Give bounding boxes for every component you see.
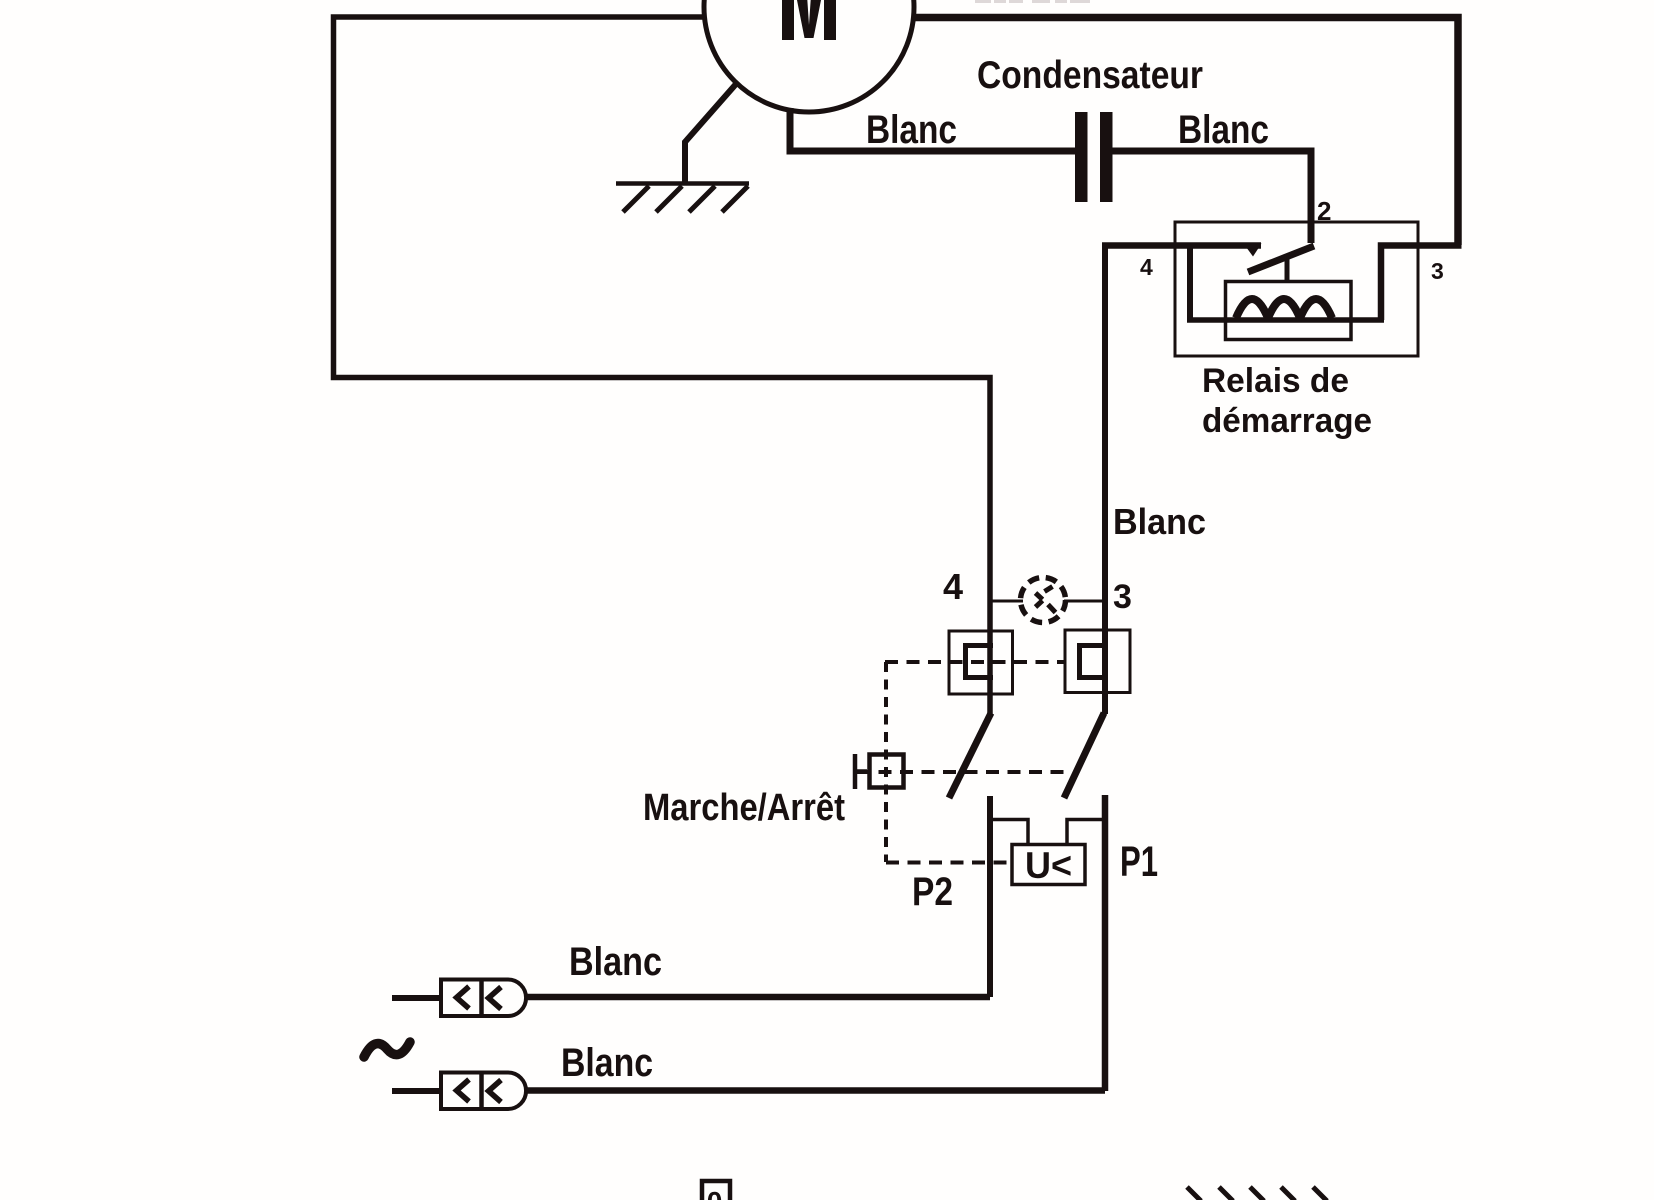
svg-text:4: 4 [943, 566, 963, 607]
svg-text:Blanc: Blanc [866, 108, 957, 152]
svg-text:0: 0 [707, 1186, 723, 1200]
svg-text:P1: P1 [1120, 838, 1158, 886]
svg-text:P2: P2 [912, 870, 953, 914]
svg-text:2: 2 [1317, 196, 1331, 226]
svg-text:4: 4 [1140, 254, 1153, 280]
svg-text:démarrage: démarrage [1202, 402, 1372, 440]
svg-text:U<: U< [1025, 845, 1072, 886]
svg-text:Blanc: Blanc [569, 940, 662, 984]
svg-text:Blanc: Blanc [1113, 501, 1206, 542]
svg-text:Blanc: Blanc [561, 1041, 653, 1085]
svg-text:Condensateur: Condensateur [977, 54, 1203, 97]
svg-text:3: 3 [1113, 578, 1132, 616]
svg-text:Relais de: Relais de [1202, 362, 1349, 400]
svg-text:Blanc: Blanc [1178, 108, 1269, 152]
svg-text:Marche/Arrêt: Marche/Arrêt [643, 787, 845, 829]
svg-text:3: 3 [1431, 258, 1444, 284]
